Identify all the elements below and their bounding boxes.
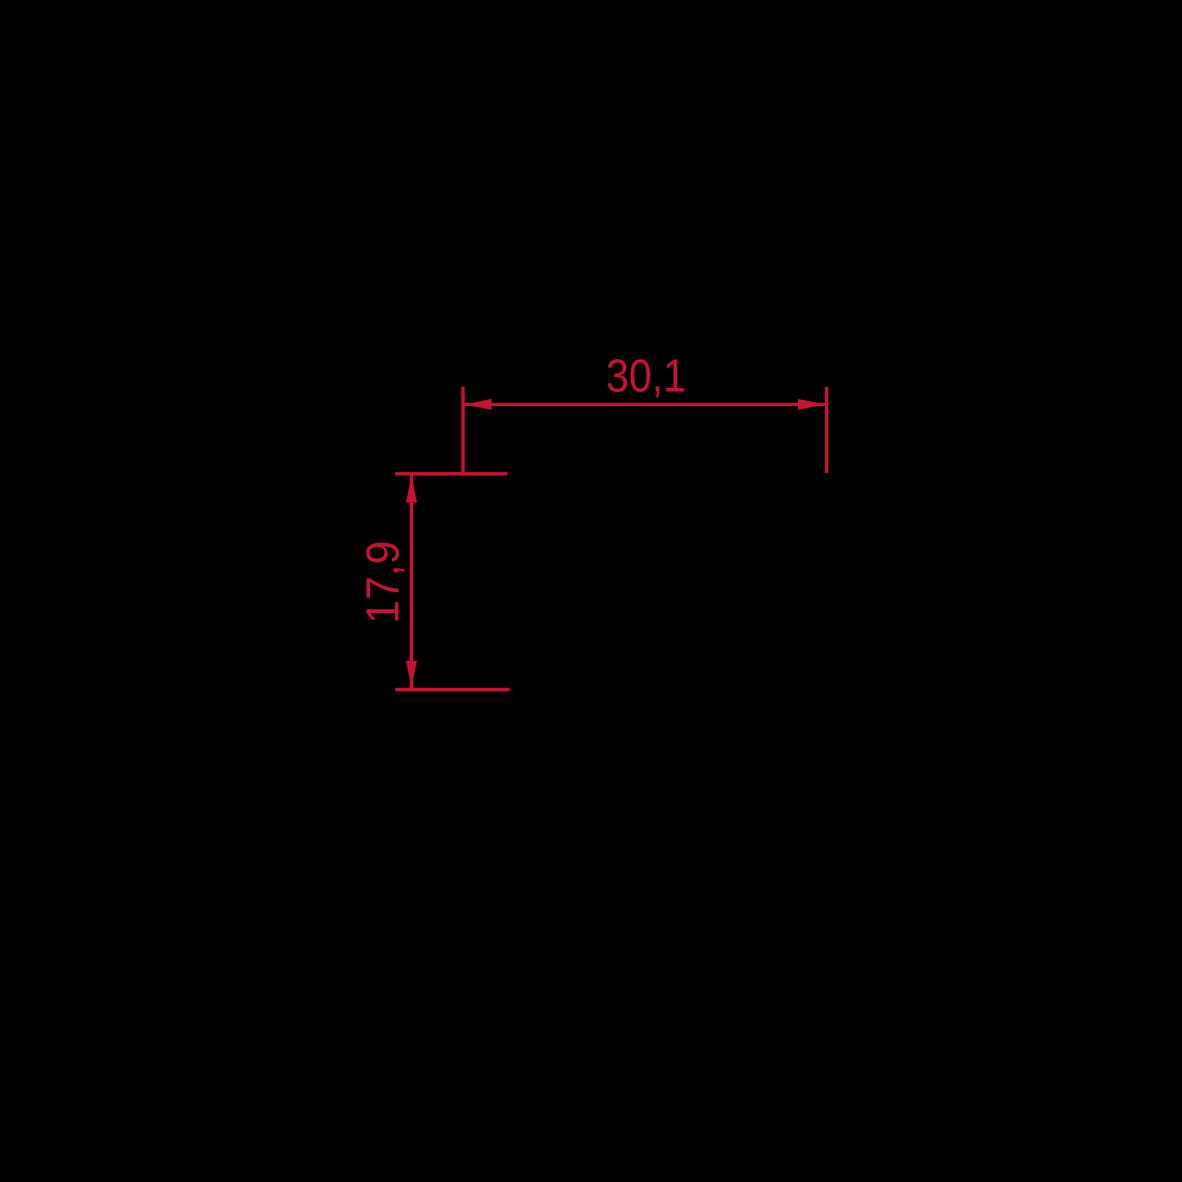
svg-text:17,9: 17,9	[356, 541, 408, 624]
svg-text:30,1: 30,1	[606, 349, 686, 401]
